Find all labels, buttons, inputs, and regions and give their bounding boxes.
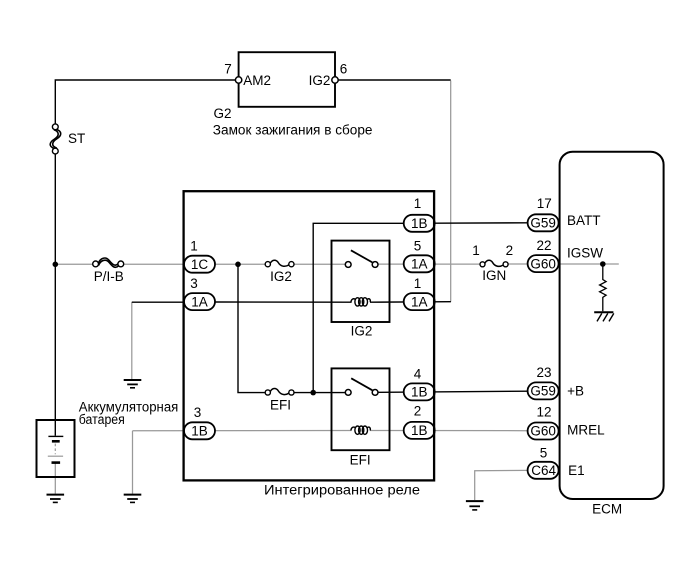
battery plate long gray — [48, 455, 63, 457]
svg-text:23: 23 — [536, 365, 551, 380]
svg-text:AM2: AM2 — [243, 73, 271, 88]
svg-text:1B: 1B — [411, 423, 428, 438]
node battery junction — [53, 262, 59, 268]
wire EFI feed: junction down and right to EFI fuse — [238, 264, 265, 392]
wire EFI coil to 1B(2) to G60 MREL — [370, 430, 528, 432]
svg-text:IG2: IG2 — [309, 73, 331, 88]
svg-text:ST: ST — [68, 131, 85, 146]
wire BATT leg up from EFI fuse junction to 1B(1) — [313, 223, 404, 392]
dark wire group — [55, 80, 528, 436]
connector G60 pin12 ECM — [528, 423, 559, 440]
svg-text:3: 3 — [190, 276, 198, 291]
wire ST to junction to battery — [54, 154, 56, 436]
connector 1B pin3 — [184, 422, 215, 439]
gray wire group — [55, 81, 619, 500]
wire 1B(3) ground drop — [132, 431, 134, 494]
svg-text:Интегрированное реле: Интегрированное реле — [264, 482, 420, 497]
connector G59 pin17 ECM — [528, 214, 559, 231]
relay EFI switch contact — [345, 378, 378, 395]
wire relay switch out to 1A(5) to IGN fuse — [378, 263, 480, 265]
svg-text:G60: G60 — [530, 424, 556, 439]
svg-text:12: 12 — [536, 405, 551, 420]
wire battery to AM2 pin7 — [55, 80, 238, 124]
battery cell symbol — [48, 436, 64, 462]
svg-text:4: 4 — [414, 366, 422, 381]
svg-text:2: 2 — [414, 404, 422, 419]
wire MREL row 1B(3) to EFI coil — [133, 430, 352, 432]
svg-text:3: 3 — [194, 405, 202, 420]
svg-text:C64: C64 — [531, 463, 556, 478]
relay IG2 switch contact — [345, 250, 378, 267]
svg-text:2: 2 — [506, 243, 514, 258]
svg-text:EFI: EFI — [270, 398, 291, 413]
svg-text:1A: 1A — [411, 294, 428, 309]
ignition switch box G2 — [239, 52, 335, 107]
fuse EFI — [265, 388, 294, 395]
connector 1C pin1 — [184, 256, 215, 273]
svg-text:1B: 1B — [191, 424, 208, 439]
node EFI fuse / BATT junction — [310, 390, 316, 396]
svg-text:EFI: EFI — [350, 453, 371, 468]
wire P/I-B row from battery junction to splice — [55, 263, 92, 265]
fuse IGN — [480, 260, 508, 267]
resistor in ECM — [600, 264, 607, 311]
connector 1B pin1 right — [404, 215, 435, 232]
wire splice to 1C to junction to IG2 fuse — [124, 263, 265, 265]
connector 1A pin3 — [184, 293, 215, 310]
relay EFI coil — [351, 426, 370, 434]
ECM box — [560, 152, 664, 499]
svg-text:G2: G2 — [214, 106, 232, 121]
svg-text:E1: E1 — [568, 463, 585, 478]
svg-text:P/I-B: P/I-B — [94, 269, 124, 284]
relay EFI inner box — [332, 368, 390, 450]
ground hatched (ECM internal) — [594, 312, 614, 321]
svg-text:7: 7 — [224, 61, 232, 76]
svg-text:1B: 1B — [411, 385, 428, 400]
wire 1A(3) horizontal stub — [132, 301, 184, 303]
wire EFI switch to 1B(4) to G59 +B — [378, 391, 528, 392]
svg-text:IG2: IG2 — [270, 269, 292, 284]
svg-text:Замок зажигания в сборе: Замок зажигания в сборе — [213, 123, 373, 138]
ground (1A-3) — [124, 380, 142, 388]
svg-text:5: 5 — [414, 238, 422, 253]
node IGSW junction in ECM — [600, 261, 606, 267]
ground (E1) — [466, 501, 484, 510]
connector 1B pin4 right — [404, 383, 435, 400]
wire EFI fuse to relay switch — [294, 392, 345, 394]
relay IG2 coil — [351, 298, 370, 306]
svg-text:IG2: IG2 — [351, 323, 373, 338]
svg-text:1: 1 — [472, 243, 480, 258]
svg-text:G60: G60 — [530, 256, 556, 271]
fusible link ST — [50, 124, 61, 154]
battery plate short thick lower — [52, 461, 61, 464]
wire IG2 pin6 vertical down — [450, 81, 452, 302]
wire battery negative lead — [54, 464, 56, 494]
fusible link P/I-B — [93, 258, 124, 267]
svg-text:+B: +B — [567, 384, 584, 399]
pin 6 IG2 circle — [332, 77, 338, 83]
connector C64 pin5 ECM — [528, 462, 559, 479]
wire IGN fuse to G60 and into ECM — [508, 263, 619, 265]
wire E1 from C64 to ground — [475, 470, 528, 500]
svg-text:MREL: MREL — [567, 423, 605, 438]
svg-text:1C: 1C — [191, 257, 209, 272]
svg-text:5: 5 — [540, 446, 548, 461]
wire IG2 coil to 1A(1) to pin6 drop — [370, 301, 451, 304]
ground (battery) — [47, 495, 65, 503]
battery dashed link — [54, 444, 56, 455]
svg-text:1B: 1B — [411, 216, 428, 231]
battery box — [37, 420, 75, 477]
connector G59 pin23 ECM — [528, 382, 559, 399]
wire IG2 fuse to relay switch — [294, 263, 345, 265]
svg-text:BATT: BATT — [567, 213, 601, 228]
fuse IG2 — [265, 260, 294, 267]
connector oval group — [184, 214, 559, 479]
integrated relay box — [184, 191, 435, 480]
wire 1B(1) to G59 BATT — [435, 222, 528, 224]
pin 7 AM2 circle — [235, 77, 241, 83]
battery plate long positive — [48, 435, 63, 437]
svg-text:1: 1 — [414, 196, 422, 211]
node IG2/EFI feed junction — [235, 262, 241, 268]
svg-text:1A: 1A — [411, 256, 428, 271]
connector 1A pin1 right — [404, 293, 435, 310]
connector 1A pin5 right — [404, 255, 435, 272]
svg-text:17: 17 — [537, 196, 552, 211]
ground (1B-3) — [124, 495, 142, 503]
svg-text:IGSW: IGSW — [567, 246, 603, 261]
svg-text:батарея: батарея — [79, 412, 125, 427]
svg-text:1: 1 — [190, 239, 198, 254]
svg-text:IGN: IGN — [482, 268, 506, 283]
svg-text:G59: G59 — [530, 384, 556, 399]
svg-text:1A: 1A — [191, 294, 208, 309]
wire IG2 coil row 1A(3) to coil — [215, 301, 352, 303]
connector G60 pin22 ECM — [528, 255, 559, 272]
connector 1B pin2 right — [404, 422, 435, 439]
wire 1A(3) ground drop — [131, 302, 133, 379]
svg-text:ECM: ECM — [592, 502, 622, 517]
battery plate short thick — [52, 440, 60, 443]
svg-text:22: 22 — [536, 238, 551, 253]
relay IG2 inner box — [332, 241, 390, 322]
svg-text:G59: G59 — [530, 216, 556, 231]
wire IG2 pin6 to corner — [335, 79, 451, 81]
svg-text:1: 1 — [414, 276, 422, 291]
svg-text:6: 6 — [340, 61, 348, 76]
